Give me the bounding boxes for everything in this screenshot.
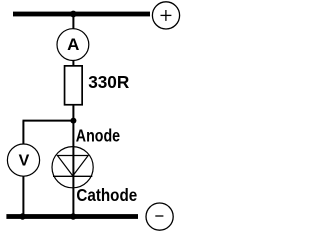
node junction bottom rail (LED branch) — [70, 213, 76, 219]
svg-text:V: V — [19, 153, 30, 170]
LED triangle (anode) — [57, 156, 88, 176]
wire resistor to node — [72, 105, 74, 121]
wire rail to ammeter — [72, 14, 74, 29]
LED D1 circle — [52, 147, 93, 188]
wire voltmeter to bottom rail — [22, 177, 24, 217]
wire node through LED to bottom rail — [72, 121, 74, 216]
positive supply rail (top bus) — [13, 12, 150, 17]
terminal - (battery negative) — [146, 203, 173, 230]
svg-text:A: A — [67, 35, 79, 54]
svg-text:Anode: Anode — [76, 126, 120, 146]
node junction bottom rail left (voltmeter) — [19, 213, 25, 219]
resistor R1 body — [65, 66, 83, 105]
LED cathode bar — [53, 175, 92, 177]
label Anode — [76, 126, 120, 146]
svg-text:330R: 330R — [88, 72, 130, 92]
svg-text:Cathode: Cathode — [76, 185, 137, 206]
wire ammeter to resistor — [72, 61, 74, 66]
node junction below resistor — [70, 118, 76, 124]
negative supply rail (bottom bus) — [6, 214, 138, 219]
ammeter A1 — [57, 29, 89, 61]
wire down to voltmeter — [22, 121, 24, 144]
terminal + (battery positive) — [152, 2, 179, 29]
voltmeter V1 — [7, 144, 39, 176]
wire node to voltmeter branch (horizontal) — [23, 120, 74, 122]
label Cathode — [76, 185, 137, 206]
node junction on top rail — [70, 11, 77, 18]
